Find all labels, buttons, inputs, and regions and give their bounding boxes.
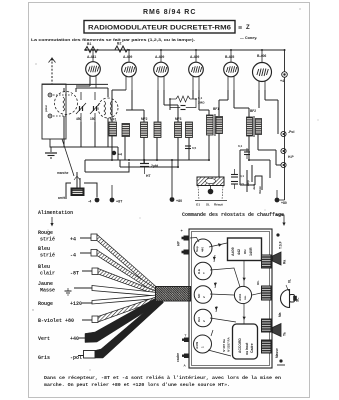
title box	[84, 21, 235, 34]
svg-text:RADIOMODULATEUR DUCRETET-RM6: RADIOMODULATEUR DUCRETET-RM6	[88, 25, 231, 32]
svg-text:150: 150	[90, 117, 96, 121]
earth post T	[48, 114, 52, 118]
svg-text:Z: Z	[246, 25, 250, 31]
terminal +80 left	[170, 197, 175, 202]
svg-text:ou haut: ou haut	[245, 342, 249, 355]
dial lamp SL	[281, 290, 290, 308]
socket Det2	[194, 309, 212, 327]
svg-text:450: 450	[76, 117, 82, 121]
reaction potentiometer	[197, 177, 224, 186]
svg-text:T: T	[202, 272, 206, 274]
terminal HP1	[281, 148, 286, 153]
svg-text:arrêt: arrêt	[58, 196, 66, 200]
svg-text:2μfd: 2μfd	[151, 164, 158, 168]
svg-text:Commande des réostats de chauf: Commande des réostats de chauffage	[182, 212, 284, 218]
svg-text:B2: B2	[117, 42, 121, 46]
svg-text:0,5: 0,5	[240, 182, 244, 186]
socket RET	[194, 262, 212, 280]
svg-text:+120: +120	[70, 301, 82, 307]
svg-text:6L: 6L	[288, 279, 292, 283]
svg-text:Réacti: Réacti	[214, 203, 223, 207]
svg-text:Ta: Ta	[283, 332, 287, 336]
svg-text:Alimentation: Alimentation	[38, 210, 73, 216]
svg-text:-8T: -8T	[70, 271, 79, 277]
wire: output jacks	[247, 165, 262, 192]
svg-text:ou.: ou.	[243, 295, 247, 300]
knob Ra (right)	[273, 252, 282, 265]
svg-text:Dans ce récepteur, -8T et -4 s: Dans ce récepteur, -8T et -4 sont reliés…	[44, 375, 281, 381]
svg-text:Cadre: Cadre	[250, 343, 254, 353]
svg-text:N°2257 RA: N°2257 RA	[227, 336, 231, 352]
svg-text:Jack: Jack	[252, 183, 256, 190]
svg-text:440: 440	[201, 247, 205, 252]
junction dots	[85, 49, 286, 168]
capacitor C7 0,5	[185, 146, 191, 149]
svg-text:Rouge: Rouge	[38, 301, 53, 307]
terminal -Pol	[281, 131, 286, 136]
accord coil unit	[233, 324, 258, 359]
svg-text:B-violet +80: B-violet +80	[38, 318, 74, 324]
ground (main)	[45, 153, 57, 158]
svg-text:SL: SL	[206, 203, 210, 207]
coil L1 winding	[63, 97, 65, 111]
svg-text:A441: A441	[238, 293, 242, 301]
svg-text:Masse: Masse	[275, 348, 279, 358]
tube V6 B406	[253, 50, 272, 90]
svg-text:+4: +4	[280, 79, 284, 83]
rheostat (filament)	[71, 188, 84, 196]
tube V3 A409	[154, 50, 169, 90]
TSF terminal (right)	[276, 233, 279, 236]
svg-text:+80: +80	[176, 199, 182, 203]
svg-text:MF: MF	[197, 294, 201, 298]
antenna post A	[48, 93, 52, 97]
svg-text:A-409: A-409	[123, 55, 132, 59]
tuning coil L1 (dashed circle)	[55, 92, 78, 115]
svg-text:B-405: B-405	[225, 55, 234, 59]
svg-text:0,5: 0,5	[192, 146, 197, 150]
terminal HP2	[281, 162, 286, 167]
knob Ta (right)	[273, 324, 282, 337]
svg-text:+4: +4	[118, 153, 122, 157]
svg-text:Vert: Vert	[38, 336, 50, 342]
svg-text:La commutation des filaments s: La commutation des filaments se fait par…	[31, 37, 195, 42]
svg-text:A-441: A-441	[87, 55, 96, 59]
rheostat block R3	[262, 319, 272, 332]
coil L2 winding	[104, 101, 106, 115]
arrowheads internal	[213, 243, 246, 320]
tube V1 A409	[86, 50, 101, 88]
svg-text:T: T	[185, 334, 187, 338]
variable capacitor CV2 150	[90, 92, 100, 122]
svg-text:HP: HP	[177, 241, 181, 246]
switch contact dashes	[53, 94, 72, 96]
svg-text:B1: B1	[87, 42, 91, 46]
wire: box to ground	[50, 139, 70, 152]
wire: box to rheostat	[62, 139, 74, 176]
HP terminals (left of chassis)	[184, 236, 189, 241]
terminal +4b	[112, 151, 116, 155]
capacitor C5 0,1	[244, 148, 250, 159]
svg-text:Volmt: Volmt	[258, 186, 262, 194]
svg-text:SL: SL	[296, 298, 300, 302]
svg-text:clair: clair	[40, 271, 55, 277]
svg-text:potar: potar	[44, 104, 48, 112]
svg-text:MF1: MF1	[110, 118, 117, 122]
socket Sup440	[194, 239, 212, 257]
socket MF2s	[194, 286, 212, 304]
wire: baseline under potentiometer	[195, 200, 227, 202]
potentiometer dashed skirt	[198, 186, 223, 200]
svg-text:ACCORD: ACCORD	[238, 338, 242, 353]
svg-text:≡: ≡	[238, 25, 242, 32]
svg-text:A-409: A-409	[155, 55, 164, 59]
svg-text:-Pol: -Pol	[288, 130, 294, 134]
svg-text:Gris: Gris	[38, 355, 50, 361]
svg-text:Jaune: Jaune	[38, 281, 53, 287]
terminal +8T	[110, 198, 115, 203]
AF transformer BF1	[207, 115, 214, 135]
svg-text:+8T: +8T	[116, 200, 123, 204]
grid capacitor C3	[170, 99, 196, 110]
tube list plate	[228, 238, 262, 261]
svg-text:Sup: Sup	[195, 246, 199, 252]
AF transformer BF2	[247, 117, 253, 136]
svg-text:A409: A409	[195, 341, 199, 349]
masse terminal bottom right	[279, 359, 282, 362]
wire: rheostat connections	[66, 162, 129, 199]
grid leak resistor R3	[170, 96, 196, 102]
svg-text:Ra: Ra	[283, 260, 287, 264]
svg-text:cadre: cadre	[176, 353, 180, 362]
IF transformer MF2	[141, 122, 148, 138]
wire: right HT rail drop	[284, 50, 286, 200]
svg-text:G1: G1	[196, 203, 200, 207]
svg-text:A-409: A-409	[190, 55, 199, 59]
terminal +4 (top right)	[282, 72, 288, 78]
svg-text:-4: -4	[70, 253, 76, 259]
wire: interstage mesh	[85, 90, 281, 185]
svg-text:Masse: Masse	[40, 288, 55, 294]
tube V4 A409	[189, 50, 204, 90]
Cadre terminals (left of chassis)	[184, 338, 189, 343]
svg-text:Me.: Me.	[278, 312, 282, 317]
terminal +80 right	[275, 198, 280, 203]
svg-text:marche. On peut relier +80 et: marche. On peut relier +80 et +120 lors …	[44, 382, 230, 388]
svg-text:442: 442	[237, 249, 241, 255]
svg-text:— Coney.: — Coney.	[240, 36, 257, 40]
socket A441	[234, 286, 251, 303]
svg-text:Rouge: Rouge	[38, 230, 53, 236]
capacitor C6 2uf	[140, 159, 149, 171]
rheostat block R2	[262, 286, 272, 300]
rheostat wiper arrow	[74, 176, 80, 188]
socket BF409	[194, 335, 212, 353]
svg-text:BF2: BF2	[250, 109, 256, 113]
resistor B1 on rail	[85, 47, 98, 53]
scan speckles	[32, 8, 318, 370]
svg-text:140R: 140R	[249, 247, 253, 256]
masse strip	[262, 340, 272, 353]
wire: chassis internal links	[208, 243, 261, 356]
svg-text:amp: amp	[246, 180, 250, 186]
svg-text:+4: +4	[70, 237, 76, 243]
terminal -4	[95, 198, 100, 203]
svg-text:Rh.: Rh.	[256, 280, 260, 285]
svg-text:R.E: R.E	[197, 269, 201, 274]
antenna arrow	[49, 58, 56, 63]
tube V5 B405	[224, 50, 239, 90]
svg-text:strié: strié	[40, 253, 55, 259]
svg-text:-4: -4	[88, 200, 91, 204]
svg-text:Bleu: Bleu	[38, 264, 50, 270]
svg-text:B-406: B-406	[257, 54, 266, 58]
svg-text:T.S.F: T.S.F	[279, 241, 283, 249]
svg-text:BF1: BF1	[213, 107, 219, 111]
svg-text:Dét: Dét	[197, 317, 201, 322]
IF transformer MF3	[175, 122, 182, 138]
variable capacitor CV1 450	[76, 92, 86, 122]
svg-text:0,1: 0,1	[238, 144, 243, 148]
chassis plan outline	[189, 229, 272, 368]
svg-text:Bleu: Bleu	[38, 246, 50, 252]
wire: HT supply top rail	[84, 49, 285, 51]
svg-text:ou: ou	[243, 250, 247, 254]
antenna lead (dashed)	[51, 58, 53, 84]
svg-text:A409: A409	[231, 247, 235, 256]
svg-text:H.P: H.P	[288, 155, 294, 159]
coupling coil L2 (dashed circle)	[98, 98, 118, 118]
svg-text:RM6 8/94 RC: RM6 8/94 RC	[143, 9, 196, 16]
input switch box	[42, 84, 66, 139]
svg-text:N°407 Du: N°407 Du	[222, 339, 226, 352]
IF transformer MF1	[109, 122, 117, 136]
cable bundle sheath	[156, 287, 191, 302]
rheostat block R1	[262, 255, 272, 268]
svg-text:+80: +80	[281, 201, 287, 205]
svg-text:0,1: 0,1	[240, 174, 244, 178]
svg-text:marche: marche	[57, 171, 69, 175]
resistor B2 on rail	[115, 46, 128, 52]
wire: input mesh	[42, 76, 118, 160]
svg-text:strié: strié	[40, 237, 55, 243]
tube V2 A409	[122, 50, 137, 90]
svg-text:+40: +40	[70, 336, 79, 342]
